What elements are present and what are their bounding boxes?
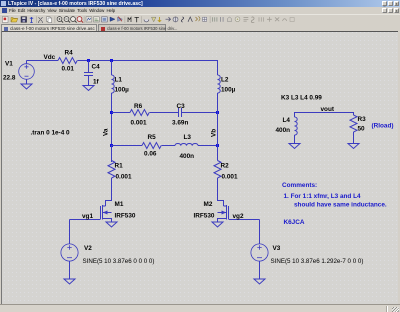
svg-text:0.01: 0.01 (62, 66, 75, 73)
inductor L4 (295, 117, 298, 135)
wire C3 to Vb (182, 112, 218, 114)
wire Va down to R1 (111, 145, 113, 162)
svg-text:vout: vout (321, 106, 335, 113)
resistor R2 (214, 161, 221, 179)
svg-text:M2: M2 (204, 201, 213, 208)
svg-text:R3: R3 (358, 116, 367, 123)
svg-text:22.8: 22.8 (3, 75, 16, 82)
node junction Va-R6 (110, 111, 113, 114)
svg-text:IRF530: IRF530 (194, 213, 215, 220)
wire vout L4 to R3 (295, 113, 354, 118)
svg-text:400n: 400n (180, 153, 195, 160)
svg-text:50: 50 (358, 126, 366, 133)
svg-text:V1: V1 (5, 61, 13, 68)
svg-text:400n: 400n (276, 127, 291, 134)
menu bar (0, 7, 400, 14)
svg-text:Vb: Vb (211, 129, 218, 137)
svg-text:Comments:: Comments: (282, 182, 317, 189)
voltage source V2 (61, 220, 78, 280)
nmos M2 (218, 205, 229, 222)
nmos M1 (101, 205, 112, 222)
capacitor C4 (84, 61, 93, 86)
ground under C4 (83, 86, 94, 91)
capacitor C3 (179, 108, 182, 117)
svg-text:1. For 1:1 xfmr, L3 and L4: 1. For 1:1 xfmr, L3 and L4 (284, 193, 362, 200)
inductor L2 (218, 75, 221, 93)
svg-text:R2: R2 (221, 163, 230, 170)
svg-text:IRF530: IRF530 (115, 213, 136, 220)
wire L2 to Vb column (217, 93, 219, 161)
wire L1 to node Va (111, 93, 113, 145)
ground under M1 (106, 222, 117, 227)
svg-text:(Rload): (Rload) (372, 123, 394, 130)
ground under V3 (254, 279, 265, 284)
svg-text:V2: V2 (84, 245, 92, 252)
svg-text:0.001: 0.001 (222, 174, 238, 181)
ground under M2 (212, 222, 223, 227)
node junction Vb-C3 (216, 111, 219, 114)
wire R3 to ground (353, 132, 355, 144)
title bar (0, 0, 400, 7)
resistor R3 (350, 115, 357, 132)
svg-text:vg1: vg1 (82, 213, 93, 220)
voltage source V1 (19, 61, 35, 85)
tab bar (0, 23, 400, 32)
svg-text:0.001: 0.001 (131, 120, 147, 127)
svg-text:K3 L3 L4 0.99: K3 L3 L4 0.99 (281, 95, 322, 102)
ground under R3 (348, 144, 359, 149)
ground under L4 (289, 144, 300, 149)
svg-text:SINE(5 10 3.87e6 0 0 0 0): SINE(5 10 3.87e6 0 0 0 0) (83, 258, 155, 265)
voltage source V3 (251, 220, 268, 280)
wire L4 to ground (294, 135, 296, 144)
wire L1 top lead (111, 61, 113, 76)
node junction L1 top (110, 59, 113, 62)
status bar (0, 304, 400, 312)
svg-text:100µ: 100µ (221, 87, 236, 94)
svg-text:L2: L2 (221, 77, 229, 84)
wire Va to R5 (112, 145, 143, 147)
inductor L1 (112, 75, 115, 93)
svg-text:0.06: 0.06 (144, 151, 157, 158)
svg-text:vg2: vg2 (233, 213, 244, 220)
svg-text:L3: L3 (184, 134, 192, 141)
node junction Vb-L3 (216, 144, 219, 147)
svg-text:C3: C3 (177, 103, 186, 110)
svg-text:K6JCA: K6JCA (284, 219, 305, 226)
svg-text:100µ: 100µ (115, 87, 130, 94)
svg-text:M1: M1 (115, 201, 124, 208)
resistor R4 (58, 58, 77, 64)
svg-text:0.001: 0.001 (116, 174, 132, 181)
svg-text:R1: R1 (115, 163, 124, 170)
toolbar (0, 14, 400, 23)
ground under V1 (21, 84, 32, 89)
svg-text:3.69n: 3.69n (172, 120, 188, 127)
resistor R1 (108, 161, 115, 179)
svg-text:C4: C4 (92, 64, 101, 71)
svg-text:V3: V3 (273, 245, 281, 252)
svg-text:L1: L1 (115, 77, 123, 84)
svg-text:Vdc: Vdc (44, 54, 56, 61)
wire R6 to C3 (150, 112, 179, 114)
svg-text:should have same inductance.: should have same inductance. (294, 202, 387, 209)
svg-text:SINE(5 10 3.87e6 1.292e-7 0 0: SINE(5 10 3.87e6 1.292e-7 0 0 0) (271, 258, 364, 265)
svg-text:R4: R4 (65, 50, 74, 57)
toolbar icons (chrome decoration) (3, 16, 295, 23)
resistor R6 (130, 110, 149, 116)
wire top rail V1 to L2 corner (27, 61, 218, 76)
svg-text:L4: L4 (283, 117, 291, 124)
svg-text:R6: R6 (134, 103, 143, 110)
resistor R5 (142, 143, 161, 149)
wire R5 to L3 (162, 145, 176, 147)
svg-text:.tran 0 1e-4 0: .tran 0 1e-4 0 (31, 130, 71, 137)
wire R2 to M2 drain (218, 178, 224, 206)
wire gate M1 to vg1 (70, 219, 101, 221)
node junction C4 top (87, 59, 90, 62)
inductor L3 (175, 144, 198, 146)
svg-text:1f: 1f (93, 79, 100, 86)
ground under V2 (64, 279, 75, 284)
svg-text:Va: Va (103, 128, 110, 136)
svg-text:R5: R5 (148, 134, 157, 141)
wire R1 to M1 drain (106, 178, 112, 206)
wire L3 to Vb (198, 145, 218, 147)
wire gate M2 to vg2 (229, 219, 260, 221)
wire Va to R6 (112, 112, 131, 114)
node junction Va-R5 (110, 144, 113, 147)
